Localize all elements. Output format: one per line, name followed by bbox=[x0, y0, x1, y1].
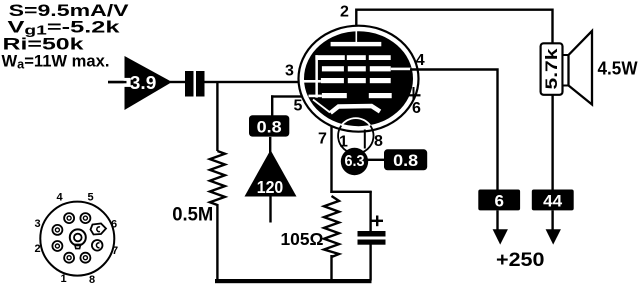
svg-text:0.8: 0.8 bbox=[257, 118, 282, 137]
polarity plus sign bbox=[372, 216, 384, 227]
socket pin 8 bbox=[80, 253, 90, 263]
stub below triangle 120 bbox=[269, 197, 271, 223]
arrow to +250 (right) bbox=[546, 229, 561, 244]
heater circle (black arc outside blob) bbox=[338, 126, 373, 154]
capacitor C1 (coupling) bbox=[185, 71, 205, 97]
speaker horn bbox=[569, 31, 593, 105]
output transformer 5.7k bbox=[541, 43, 563, 95]
wire transformer bottom to 44 box bbox=[551, 95, 553, 190]
ground rail (bottom bus) bbox=[215, 279, 372, 283]
wire R1 bottom to ground rail bbox=[216, 204, 218, 280]
svg-text:6: 6 bbox=[412, 100, 421, 117]
svg-text:5: 5 bbox=[88, 192, 94, 204]
socket pin 3 bbox=[52, 225, 62, 235]
wire grid node down to R 0.5M bbox=[216, 81, 218, 151]
wire C2 bottom lead to rail bbox=[369, 245, 371, 281]
wire box to triangle 120 bbox=[269, 137, 271, 153]
svg-text:0.8: 0.8 bbox=[393, 151, 418, 170]
svg-text:8: 8 bbox=[89, 274, 95, 286]
box 0.8 (heater current) bbox=[384, 149, 427, 170]
pin 6 stub bbox=[406, 87, 421, 99]
grid row C with pin 3 extension bbox=[304, 78, 391, 83]
wire cathode node to capacitor C2 bbox=[330, 191, 371, 193]
svg-text:2: 2 bbox=[35, 243, 41, 255]
grid row D with pin 5 extension bbox=[309, 93, 392, 98]
grid row B with pin 4 extension bbox=[322, 66, 411, 71]
socket pin 7 bbox=[92, 240, 103, 251]
socket pin 5 bbox=[80, 213, 90, 223]
svg-text:6: 6 bbox=[111, 219, 117, 231]
wire C2 top lead bbox=[369, 191, 371, 231]
socket outline (base diagram) bbox=[40, 202, 114, 276]
grid side connector (white vertical) bbox=[315, 55, 318, 97]
svg-text:4: 4 bbox=[416, 52, 425, 69]
wire capacitor to grid pin 3 bbox=[205, 81, 306, 83]
arrow to +250 (left) bbox=[493, 229, 508, 244]
svg-text:6.3: 6.3 bbox=[345, 153, 365, 170]
wire 6 box to arrow bbox=[496, 210, 498, 230]
heater circle (white arc inside blob) bbox=[341, 118, 370, 126]
tube electrode blob bbox=[304, 31, 413, 126]
svg-text:105Ω: 105Ω bbox=[281, 229, 324, 249]
svg-text:2: 2 bbox=[340, 3, 349, 20]
pin 8 lead inside heater circle bbox=[364, 130, 366, 149]
triangle 120 (g2 voltage) bbox=[245, 150, 297, 197]
svg-text:+250: +250 bbox=[496, 249, 545, 271]
svg-text:8: 8 bbox=[374, 133, 383, 150]
attenuator/input triangle 3.9 bbox=[108, 56, 172, 110]
svg-text:4: 4 bbox=[57, 192, 64, 204]
svg-text:S=9.5mA/V: S=9.5mA/V bbox=[9, 2, 129, 20]
wire cathode pin 7 down bbox=[330, 114, 332, 193]
speaker driver bbox=[563, 55, 569, 86]
svg-text:7: 7 bbox=[318, 131, 327, 148]
heater supply dot 6.3 bbox=[341, 148, 368, 175]
svg-text:5.7k: 5.7k bbox=[542, 48, 561, 90]
svg-text:5: 5 bbox=[294, 98, 303, 115]
box 0.8 (g2 current) bbox=[249, 115, 289, 136]
svg-text:120: 120 bbox=[257, 177, 284, 197]
resistor R2 105ohm zigzag bbox=[324, 196, 339, 257]
anode lead from pin 2 (white, inside blob) bbox=[356, 31, 358, 43]
box 6 bbox=[478, 190, 520, 211]
tube V1 envelope bbox=[299, 26, 419, 132]
grid row A bbox=[315, 55, 390, 60]
wire pin 4 to 6 box bbox=[410, 70, 498, 191]
svg-text:1: 1 bbox=[61, 273, 67, 285]
svg-text:6: 6 bbox=[494, 191, 503, 210]
socket pin 2 bbox=[52, 241, 62, 251]
wire anode pin 2 to output transformer bbox=[356, 10, 552, 44]
svg-text:0.5M: 0.5M bbox=[172, 205, 213, 226]
svg-text:3: 3 bbox=[35, 218, 41, 230]
svg-text:1: 1 bbox=[339, 134, 348, 151]
socket pin 6 keyed bbox=[91, 224, 107, 235]
svg-text:3: 3 bbox=[285, 63, 294, 80]
wire 44 box to arrow bbox=[551, 210, 553, 230]
resistor R1 0.5M zigzag bbox=[210, 151, 225, 205]
wire triangle to capacitor bbox=[170, 81, 186, 83]
cathode chevron bbox=[313, 100, 380, 113]
socket pin 4 bbox=[64, 213, 74, 223]
svg-text:4.5W: 4.5W bbox=[598, 59, 638, 79]
socket center spigot bbox=[70, 229, 86, 248]
svg-text:7: 7 bbox=[112, 245, 118, 257]
capacitor C2 electrolytic plates bbox=[358, 231, 386, 245]
wire 6.3 dot to box 0.8 bbox=[368, 159, 384, 161]
svg-text:44: 44 bbox=[543, 191, 563, 210]
svg-text:3.9: 3.9 bbox=[130, 73, 157, 93]
box 44 bbox=[532, 190, 574, 211]
wire pin 5 to grid2 network bbox=[271, 95, 303, 118]
wire input stub bbox=[108, 81, 125, 83]
anode bar bbox=[331, 42, 382, 46]
wire R2 bottom to rail bbox=[330, 255, 332, 281]
socket pin 1 bbox=[64, 253, 74, 263]
